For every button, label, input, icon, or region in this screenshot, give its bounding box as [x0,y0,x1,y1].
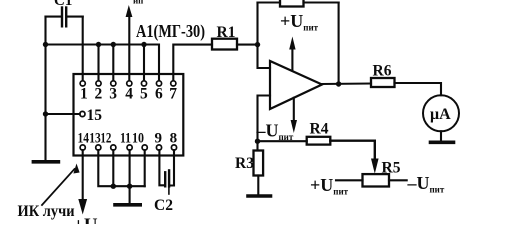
resistor R3 [254,151,264,176]
svg-text:R6: R6 [373,63,392,80]
svg-text:12: 12 [100,131,111,147]
wire op-amp output to R6 [322,82,371,85]
svg-text:15: 15 [87,107,103,124]
svg-text:2: 2 [95,86,103,103]
wire ground bus at y=44.5 [46,45,160,81]
ground meter [431,141,454,145]
wire feedback top left [258,1,281,3]
svg-text:R1: R1 [217,24,236,41]
pin 4 [127,81,132,86]
svg-text:C2: C2 [154,197,173,214]
node junction pin12/bottom bus [111,184,116,189]
wire pin 7 up to R1 [173,45,212,81]
svg-text:8: 8 [170,131,178,147]
wire pin 10 down [144,150,146,186]
svg-text:–Uпит: –Uпит [256,121,294,143]
svg-text:ИК лучи: ИК лучи [18,203,75,220]
svg-text:7: 7 [169,86,177,103]
node junction rail/pin15 [43,111,48,116]
pin 9 [156,145,161,150]
ground middle [115,203,140,207]
svg-text:А1(МГ-30): А1(МГ-30) [136,21,205,42]
svg-text:13: 13 [89,131,101,147]
pin 14 [80,145,85,150]
svg-text:4: 4 [125,86,133,103]
svg-text:R3: R3 [235,155,254,172]
power -Uпит arrow down [291,98,297,133]
wire left rail vertical [44,17,46,160]
svg-text:μА: μА [430,106,451,123]
svg-text:+U: +U [73,215,98,224]
wire pin5 stub [143,45,145,81]
wire R6 to meter [395,83,442,95]
node junction output/feedback [336,81,341,86]
capacitor C2 [165,170,169,194]
svg-text:R4: R4 [310,121,329,138]
wire -U node to R4 [258,140,307,142]
wire C1 right lead down to pin 1 column [82,17,84,81]
pin 6 [156,81,161,86]
svg-text:–Uпит: –Uпит [407,173,445,195]
wire +U supply line to pin 4 [128,16,130,81]
wire +U to R5 [336,179,363,181]
wire pin 11 down to ground [129,150,131,203]
pin 15 [80,111,85,116]
ground R3 [248,194,271,198]
node junction pin3/bus [111,42,116,47]
svg-text:14: 14 [78,131,90,147]
IR rays arrow [42,164,80,206]
ground left [33,160,58,164]
svg-text:10: 10 [132,131,144,147]
pin 7 [171,81,176,86]
op-amp U2 triangle [270,61,322,109]
svg-text:3: 3 [109,86,117,103]
wire pin2 stub [97,45,99,81]
wire pin 12 down [112,150,114,186]
node junction pin2/bus [96,42,101,47]
svg-text:5: 5 [140,86,148,103]
svg-text:+Uпит: +Uпит [310,175,349,197]
wire feedback left vertical and inverting input [258,3,271,69]
pin 2 [96,81,101,86]
output arrow down thick [78,199,87,215]
svg-text:ип: ип [133,0,143,5]
svg-text:R5: R5 [382,160,401,177]
pin 10 [142,145,147,150]
power +U arrow up [126,5,133,17]
wire non-inverting input [258,96,271,151]
wire R3 to ground [257,176,259,195]
wire feedback right vertical [338,3,340,85]
meter PA1 microammeter [423,95,459,131]
resistor R2 feedback (top cut) [280,0,304,7]
resistor R1 [212,39,237,50]
pin 3 [111,81,116,86]
svg-text:+Uпит: +Uпит [280,11,319,33]
svg-text:9: 9 [155,131,163,147]
wire pin 14 down [82,150,84,201]
wire pin 13 down and bottom bus [98,150,144,186]
svg-text:6: 6 [155,86,163,103]
svg-text:1: 1 [80,86,88,103]
node junction R1/feedback rail [255,42,260,47]
resistor R4 [307,137,331,145]
IC U1 body [74,74,184,156]
capacitor C1 [46,8,83,27]
wire pin3 stub [112,45,114,81]
R5 wiper arrow [371,159,379,174]
node junction rail/R4/R3 [255,139,260,144]
pin 5 [141,81,146,86]
pin 11 [127,145,132,150]
resistor R6 [371,78,395,87]
wire R5 to -U [389,179,407,181]
pin 1 [80,81,85,86]
pin 12 [111,145,116,150]
wire pin 9 to C2 [159,150,164,185]
wire R1 to inverting input rail [237,44,258,46]
node junction rail/bus [43,42,48,47]
resistor R5 potentiometer [363,174,390,186]
wire meter to ground [440,131,442,141]
wire R4 to R5 wiper [330,141,375,159]
node junction pin11/bottom bus [127,184,132,189]
pin 8 [171,145,176,150]
wire pin 15 branch [46,113,80,115]
wire feedback top right [304,1,339,3]
power +Uпит arrow up [289,37,295,71]
wire pin 8 to C2 [170,150,174,185]
pin 13 [96,145,101,150]
node junction pin5/bus [141,42,146,47]
